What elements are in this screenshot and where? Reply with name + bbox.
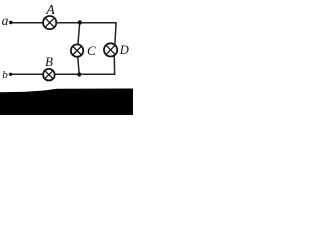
svg-text:a: a bbox=[2, 13, 9, 28]
svg-text:B: B bbox=[45, 54, 53, 69]
svg-text:C: C bbox=[87, 43, 96, 58]
svg-text:A: A bbox=[45, 3, 55, 18]
svg-text:b: b bbox=[2, 69, 8, 81]
svg-text:D: D bbox=[119, 43, 129, 57]
